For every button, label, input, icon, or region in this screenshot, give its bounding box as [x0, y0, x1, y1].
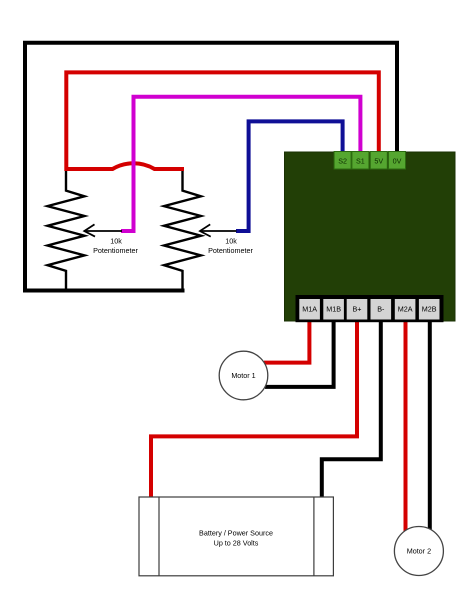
wire: red M2A to Motor 2 [404, 318, 408, 532]
battery inner divider right [313, 497, 315, 576]
terminal S2 [334, 152, 351, 170]
potentiometer R1 wiper arrowhead [84, 224, 95, 236]
terminal 0V [389, 152, 406, 170]
svg-text:S1: S1 [356, 157, 365, 166]
potentiometer R2 wiper arrowhead [200, 224, 211, 236]
svg-text:M1A: M1A [302, 305, 317, 314]
wire: black M2B to Motor 2 [428, 318, 432, 530]
potentiometer R2 (right) zigzag body [164, 171, 201, 292]
wire: blue S2 to right potentiometer wiper [236, 121, 343, 231]
terminal M2A [395, 299, 416, 320]
terminal B- [371, 299, 392, 320]
svg-text:B-: B- [377, 305, 385, 314]
potentiometer R2 wiper line [200, 230, 237, 232]
battery / power source box [139, 497, 333, 576]
terminal M1A [299, 299, 320, 320]
wire: red B+ to battery positive [151, 318, 357, 498]
wire: black 0V ground loop (0V terminal up, across top, down left side, along bottom) [25, 43, 397, 291]
svg-text:S2: S2 [338, 157, 347, 166]
svg-text:10k: 10k [110, 237, 122, 246]
wire: red M1A to Motor 1 [264, 318, 309, 363]
svg-text:Potentiometer: Potentiometer [93, 246, 138, 255]
wire: black B- to battery negative [322, 318, 381, 498]
terminal B+ [347, 299, 368, 320]
motor M2 circle [394, 527, 443, 576]
motor M1 circle [219, 351, 268, 400]
svg-text:Motor 1: Motor 1 [231, 371, 255, 380]
svg-text:10k: 10k [225, 237, 237, 246]
svg-text:B+: B+ [353, 305, 362, 314]
svg-text:0V: 0V [393, 157, 402, 166]
svg-text:Potentiometer: Potentiometer [208, 246, 253, 255]
svg-text:M2B: M2B [422, 305, 437, 314]
svg-text:Up to 28 Volts: Up to 28 Volts [214, 538, 259, 547]
svg-text:M2A: M2A [398, 305, 413, 314]
potentiometer R1 (left) zigzag body [48, 171, 85, 292]
wire: red 5V to potentiometer tops (with hop over magenta) [66, 72, 379, 169]
terminal strip bar [296, 295, 444, 322]
svg-text:M1B: M1B [326, 305, 341, 314]
svg-text:Motor 2: Motor 2 [407, 546, 431, 555]
terminal M1B [323, 299, 344, 320]
svg-text:Battery / Power Source: Battery / Power Source [199, 528, 273, 537]
wire: black M1B to Motor 1 [265, 318, 334, 387]
terminal M2B [419, 299, 440, 320]
terminal S1 [352, 152, 369, 170]
terminal 5V [370, 152, 387, 170]
wire: magenta S1 to left potentiometer wiper [121, 97, 360, 231]
svg-text:5V: 5V [374, 157, 383, 166]
potentiometer R1 wiper line [84, 230, 122, 232]
battery inner divider left [158, 497, 160, 576]
motor controller board U1 [285, 152, 456, 321]
